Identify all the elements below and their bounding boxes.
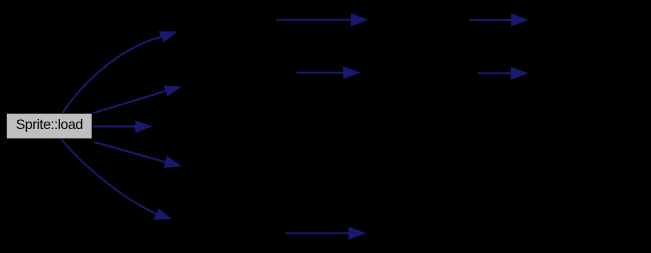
arrowhead U1 [351,14,367,26]
edge T2 -> U2 (horizontal mid middle) [297,72,345,74]
arrowhead V2 [511,67,527,79]
arrowhead U2 [344,67,360,78]
edge Sprite::load -> node T5 (curved down) [62,139,157,214]
edge U1 -> V1 (horizontal top right) [469,19,513,21]
edge T5 -> U3 (horizontal bottom) [285,232,351,234]
arrowhead U3 [349,227,365,239]
edge T1 -> U1 (horizontal top middle) [276,19,353,21]
node Sprite::load (root box) [6,113,92,139]
edge Sprite::load -> node T4 [94,142,166,162]
arrowhead V1 [512,14,528,26]
arrowhead T5 [154,209,171,219]
arrowhead T2 [165,86,181,96]
arrowhead T1 [159,32,176,42]
edge Sprite::load -> node T2 [94,91,166,113]
edge Sprite::load -> node T3 (horizontal) [93,126,137,128]
edge Sprite::load -> node T1 (curved up) [63,37,162,113]
edge U2 -> V2 (horizontal mid right) [478,72,513,74]
arrowhead T3 [136,121,151,132]
svg-text:Sprite::load: Sprite::load [16,116,83,132]
arrowhead T4 [165,157,181,168]
